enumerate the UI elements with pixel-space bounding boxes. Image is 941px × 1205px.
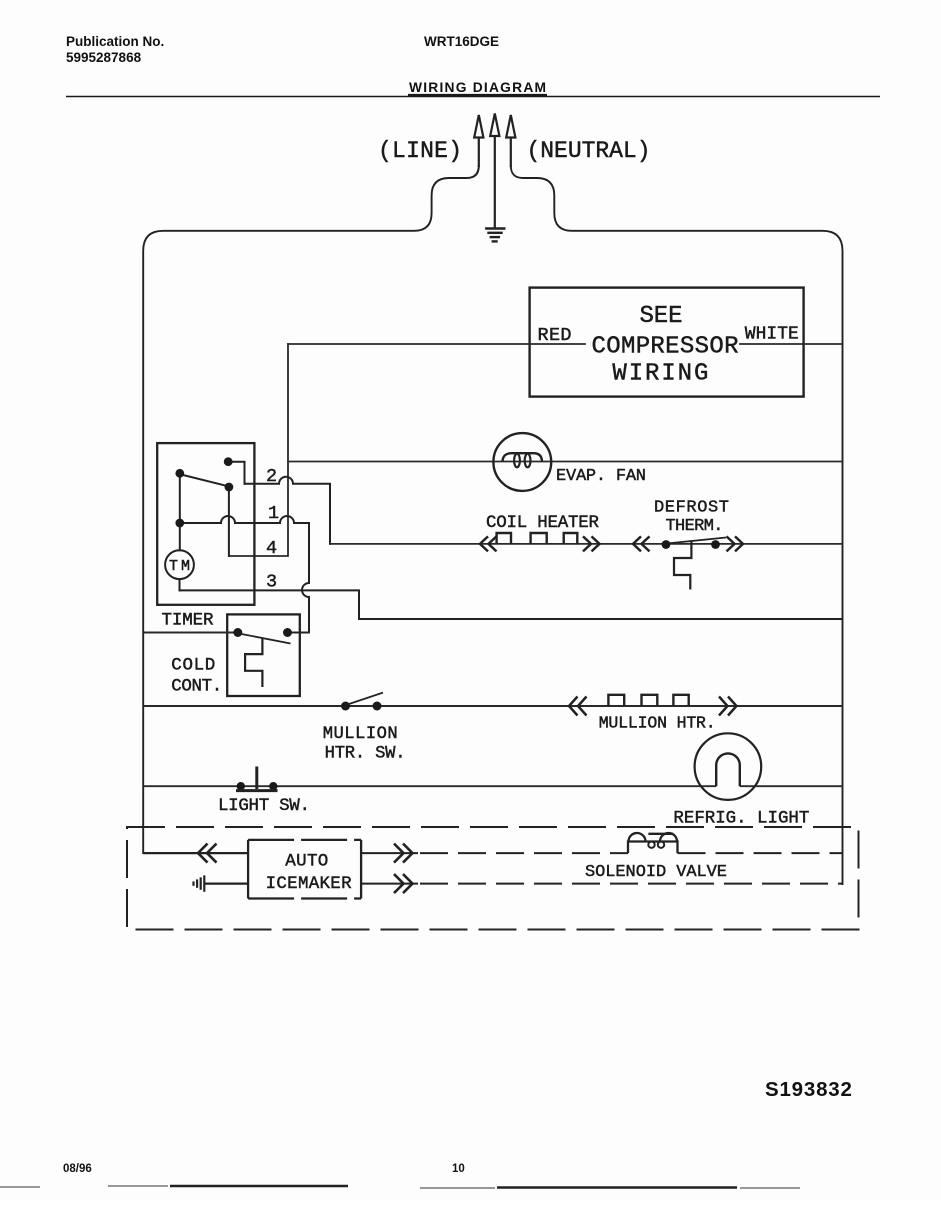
wire cold control feed from left bus — [143, 632, 238, 634]
evap fan motor circle — [493, 433, 551, 491]
mullion switch contact right — [373, 702, 382, 711]
svg-text:Publication No.: Publication No. — [66, 34, 164, 49]
svg-text:MULLION: MULLION — [323, 725, 398, 744]
svg-text:1: 1 — [268, 503, 279, 524]
svg-text:COMPRESSOR: COMPRESSOR — [592, 334, 739, 361]
timer dot3 drop to terminal 4 lead — [228, 487, 230, 556]
neutral arrow terminal — [506, 115, 515, 166]
cold control contact right — [283, 628, 292, 637]
svg-text:HTR. SW.: HTR. SW. — [325, 745, 406, 764]
cold control switch arm — [239, 634, 291, 644]
defrost therm contact left — [662, 540, 671, 549]
svg-text:2: 2 — [266, 466, 277, 487]
connector chevrons right of defrost therm — [727, 536, 744, 551]
svg-text:08/96: 08/96 — [63, 1163, 92, 1175]
timer contact dot 1 — [224, 457, 233, 466]
timer dot2 to dot4 vertical — [179, 473, 181, 523]
wire white compressor lead — [740, 343, 843, 345]
wire icemaker output upper — [361, 852, 418, 854]
connector chevrons right of coil heater — [583, 536, 600, 551]
timer switch arm dot2-dot3 — [181, 475, 228, 487]
defrost therm capillary — [674, 541, 691, 590]
cold control box — [227, 614, 300, 696]
svg-text:SEE: SEE — [640, 303, 683, 330]
evap fan winding symbol — [503, 453, 543, 467]
svg-text:WHITE: WHITE — [745, 325, 799, 345]
wire dashed icemaker return to right bus — [420, 883, 843, 885]
refrig light bulb circle — [695, 733, 762, 800]
svg-text:4: 4 — [266, 538, 277, 559]
wire light switch / refrig light line — [143, 785, 842, 787]
svg-text:CONT.: CONT. — [171, 677, 222, 697]
svg-text:DEFROST: DEFROST — [654, 499, 729, 518]
header rule — [66, 95, 880, 97]
svg-text:WRT16DGE: WRT16DGE — [424, 34, 499, 49]
svg-text:AUTO: AUTO — [285, 852, 328, 872]
chassis ground symbol at icemaker — [194, 875, 205, 891]
wire 1 from dot4 with two jumps — [180, 516, 309, 523]
wire red compressor lead — [288, 343, 585, 345]
wire dashed to solenoid valve — [420, 852, 628, 854]
light switch contact left — [237, 782, 245, 790]
connector chevrons left of coil heater — [480, 536, 600, 551]
timer motor TM circle — [165, 550, 194, 579]
mullion switch contact left — [341, 702, 350, 711]
svg-text:TIMER: TIMER — [162, 611, 214, 631]
svg-text:3: 3 — [266, 572, 277, 593]
svg-text:S193832: S193832 — [765, 1078, 853, 1101]
wire 2 with jump over red drop, to coil heater feed — [245, 477, 331, 544]
wire coil heater / defrost line — [330, 543, 843, 545]
light switch contact right — [269, 782, 277, 790]
wire mullion heater line — [143, 705, 842, 707]
connector chevrons left of mullion heater — [569, 697, 737, 716]
mullion heater resistor element — [608, 695, 688, 706]
connector chevron into icemaker — [198, 844, 217, 863]
wire icemaker ground lead — [204, 882, 248, 884]
timer terminal 2 lead from dot1 — [228, 462, 244, 484]
wire 3 from timer motor — [180, 590, 843, 619]
earth ground symbol — [486, 229, 504, 242]
header text block — [66, 34, 546, 95]
svg-text:RED: RED — [538, 325, 572, 346]
wire evap fan branch — [288, 461, 843, 463]
svg-text:SOLENOID VALVE: SOLENOID VALVE — [585, 863, 727, 882]
auto icemaker box — [248, 840, 361, 899]
wire red drop to timer terminal 4 — [229, 344, 288, 556]
wire 1 drop with jump over wire 3, into cold control — [288, 523, 310, 633]
svg-text:COIL HEATER: COIL HEATER — [486, 513, 599, 533]
svg-text:ICEMAKER: ICEMAKER — [266, 874, 352, 894]
cold control capillary — [245, 639, 262, 687]
svg-text:MULLION HTR.: MULLION HTR. — [599, 714, 716, 733]
bottom scan edge marks — [170, 1186, 737, 1188]
connector chevrons out of icemaker upper — [394, 844, 413, 863]
cold control contact left — [233, 628, 242, 637]
connector chevrons right of mullion heater — [719, 697, 737, 716]
svg-text:THERM.: THERM. — [666, 517, 724, 536]
svg-text:(NEUTRAL): (NEUTRAL) — [527, 138, 651, 164]
wire dashed solenoid to right bus — [678, 852, 843, 854]
svg-text:WIRING: WIRING — [612, 361, 708, 388]
timer contact dot 2 — [175, 469, 184, 478]
timer contact dot 4 — [175, 519, 184, 528]
timer box — [157, 443, 254, 605]
wire: line entry S-curve into box top-left edge — [143, 166, 479, 853]
wire icemaker output lower — [361, 883, 418, 885]
timer motor lead — [179, 523, 181, 550]
svg-text:5995287868: 5995287868 — [66, 50, 142, 65]
svg-text:(LINE): (LINE) — [378, 138, 462, 164]
svg-text:10: 10 — [452, 1163, 465, 1175]
compressor wiring box — [530, 288, 804, 397]
light switch plunger — [236, 767, 278, 791]
svg-text:LIGHT SW.: LIGHT SW. — [218, 796, 310, 816]
line arrow terminal — [474, 115, 483, 166]
svg-text:EVAP. FAN: EVAP. FAN — [556, 467, 646, 486]
defrost therm switch arm — [667, 538, 726, 544]
dashed icemaker enclosure box — [127, 827, 859, 930]
wire icemaker supply from left bus — [143, 852, 248, 854]
solenoid valve coil — [628, 833, 678, 853]
timer motor lead bottom — [179, 579, 181, 590]
wire: neutral entry S-curve into box top-right edge — [511, 166, 843, 884]
svg-text:COLD: COLD — [171, 656, 215, 676]
connector chevrons left of defrost therm — [633, 536, 743, 551]
mullion heater switch arm — [346, 693, 383, 705]
svg-text:WIRING DIAGRAM: WIRING DIAGRAM — [409, 80, 546, 95]
coil heater resistor element — [497, 533, 578, 544]
connector chevrons out of icemaker lower — [394, 874, 413, 893]
timer contact dot 3 — [225, 483, 234, 492]
refrig light filament — [716, 753, 740, 786]
svg-text:REFRIG. LIGHT: REFRIG. LIGHT — [673, 809, 809, 829]
defrost therm contact right — [711, 540, 720, 549]
ground arrow terminal — [490, 114, 499, 228]
svg-text:TM: TM — [169, 558, 190, 575]
